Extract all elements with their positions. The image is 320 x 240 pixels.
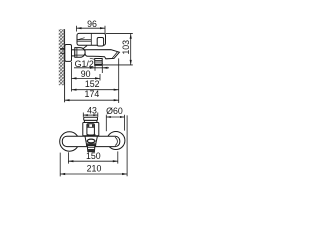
svg-text:210: 210 — [87, 164, 102, 174]
svg-text:43: 43 — [87, 105, 97, 115]
svg-text:90: 90 — [81, 69, 91, 79]
svg-text:174: 174 — [85, 89, 100, 99]
svg-text:150: 150 — [86, 151, 101, 161]
svg-text:152: 152 — [85, 79, 100, 89]
svg-text:Ø60: Ø60 — [106, 106, 123, 116]
svg-text:G1/2: G1/2 — [75, 59, 94, 69]
svg-text:96: 96 — [87, 19, 97, 29]
svg-text:103: 103 — [121, 40, 131, 55]
